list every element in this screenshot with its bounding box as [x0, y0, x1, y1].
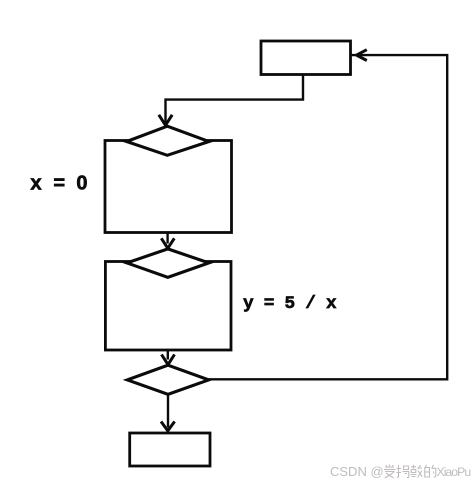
- svg-text:XiaoPu: XiaoPu: [437, 465, 472, 479]
- decision diamond D3: [127, 365, 208, 394]
- wire from process box P1 to decision D2: [166, 233, 168, 244]
- svg-text:CSDN @: CSDN @: [330, 464, 384, 479]
- watermark hanzi 2 (dao): [397, 465, 409, 478]
- wire from process box P2 to decision D3: [167, 350, 169, 359]
- process box P2: [105, 262, 231, 351]
- svg-text:y = 5 / x: y = 5 / x: [243, 294, 337, 314]
- arrowhead into terminal box: [161, 422, 175, 431]
- decision diamond D1: [127, 126, 209, 155]
- wire from top box down and left to decision D1: [166, 75, 304, 123]
- watermark hanzi 3 (gu): [411, 465, 423, 478]
- feedback wire from decision D3 right vertex up to top box: [209, 55, 448, 379]
- svg-text:x = 0: x = 0: [30, 173, 87, 197]
- arrowhead into decision D3: [162, 355, 175, 365]
- arrowhead into decision D2: [161, 238, 174, 248]
- watermark hanzi 1 (ai): [384, 465, 396, 479]
- terminal box: [130, 433, 210, 466]
- watermark hanzi 4 (de): [425, 465, 436, 477]
- arrowhead into top box right edge: [357, 50, 367, 61]
- top process box: [261, 41, 351, 75]
- decision diamond D2: [127, 249, 209, 277]
- wire from decision D3 bottom to terminal box: [167, 394, 169, 427]
- process box P1: [105, 141, 232, 233]
- arrowhead into decision D1: [159, 115, 172, 125]
